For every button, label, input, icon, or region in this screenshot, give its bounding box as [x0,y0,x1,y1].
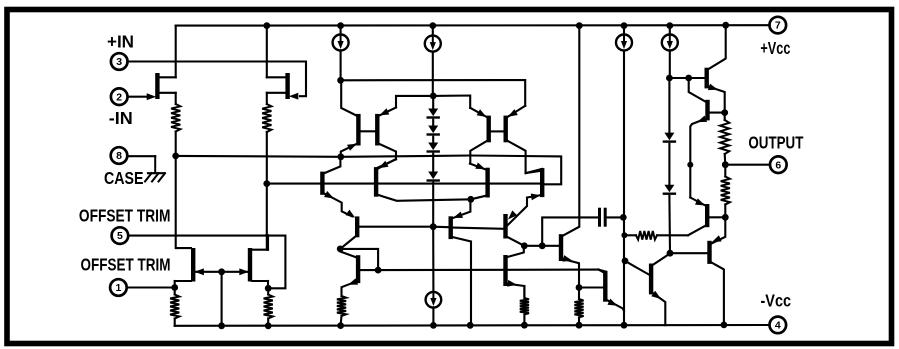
resistor R5 (Q8 emitter) [337,296,346,316]
svg-text:CASE: CASE [104,168,144,188]
node Q10 collector rail junction [467,322,474,329]
node I1 output junction [337,77,344,84]
wire I5/D5 node down to D5 [668,78,670,133]
wire Q2 drain to +Vcc rail [266,26,268,78]
wire R9 to Q19 collector [657,234,688,236]
node R7 rail junction [521,322,528,329]
transistor Q9 (NPN) [705,68,709,89]
node R5 rail junction [337,322,344,329]
pin 5 (OFFSET TRIM) [112,227,129,244]
node I5 rail junction [666,22,673,29]
pin 3 (+IN) [111,53,128,70]
node Q15a/Q15b collector junction [521,242,528,249]
wire I2 to diode stack top [432,52,434,96]
transistor Q5b (NPN) [320,172,324,195]
pin 1 (OFFSET TRIM) [110,279,127,296]
wire trim JFET gates tied [195,271,247,273]
svg-text:2: 2 [116,91,122,103]
resistor R8 (Q16 emitter) [574,299,583,318]
wire D1 to D2 [432,120,434,126]
transistor Q6b (PNP) [374,167,378,197]
node R4 rail junction [265,322,272,329]
wire stack-bottom net to Q10/Q15a bases [433,226,448,229]
pin 2 (-IN) [111,88,128,105]
current source I5 [669,26,671,35]
wire Q5/Q6 base tie [491,130,503,132]
transistor Q5 (PNP) [487,116,491,143]
diode D1 [428,109,438,117]
node Q16 emitter / Q17 base junction [576,284,583,291]
wire I4 down bias column [623,51,625,218]
wire gate tie down to -Vcc rail [221,272,223,326]
svg-text:7: 7 [775,20,781,32]
pin 7 (+Vcc) [770,17,787,34]
svg-text:OFFSET TRIM: OFFSET TRIM [81,255,171,275]
svg-text:3: 3 [116,56,122,68]
node Q9 base junction [685,75,692,82]
wire R1 bottom to node (pin8 net) [175,132,177,156]
transistor Q20 (PNP) [707,241,711,264]
wire pin1 to trim JFET Q11 source node [127,286,175,288]
wire Q8 node to Q15 base line [378,269,598,272]
transistor Q8 (NPN, diode connected) [356,255,360,283]
wire D4 to stack bottom node [432,183,434,227]
wire node to compensation cap / Q16 base [524,245,542,247]
wire node to Q9 base node [669,77,688,79]
svg-text:5: 5 [117,230,123,242]
node Q16 collector rail junction [576,22,583,29]
wire I4 column to -Vcc rail [623,217,625,325]
wire Q15 collector corner [599,270,606,272]
node Q3 emitter / Q5b collector junction [337,153,344,160]
JFET Q11 (offset trim left) [191,248,195,282]
wire I1 to Q3 collector node [340,51,342,81]
wire pin8 to chassis ground [127,155,155,157]
wire D6 down to Q18 collector node [668,196,671,253]
svg-text:OUTPUT: OUTPUT [748,133,803,153]
node cap junction [539,242,546,249]
resistor R1 [171,104,180,132]
capacitor C1 [598,209,601,225]
diode D5 [664,133,674,141]
node pin1/R3 junction [171,284,178,291]
resistor R9 [624,234,636,236]
JFET Q12 (offset trim right) [248,248,252,282]
wire pin2 to Q1 gate [128,96,146,98]
transistor Q3 (PNP) [356,114,360,146]
resistor R6 (output bleed) [720,120,729,154]
node I4 rail junction [621,22,628,29]
svg-text:OFFSET TRIM: OFFSET TRIM [79,206,170,226]
node diode stack bottom junction [430,223,437,230]
node Q7/Q8 collector junction [337,246,344,253]
node I3 rail junction [430,322,437,329]
svg-text:4: 4 [775,320,781,332]
wire -Vcc bottom rail [175,324,770,327]
JFET Q1 (inverting input) [155,73,159,99]
resistor R4 [264,295,273,319]
wire Q12 drain up to R2 net [267,235,269,249]
svg-text:1: 1 [115,282,121,294]
transistor Q16 (NPN) [559,234,563,261]
svg-text:-IN: -IN [109,108,133,128]
transistor Q6 (PNP) [504,116,508,143]
wire stack-top node to Q4 emitter leg [396,96,433,108]
wire node down to trim JFET Q11 drain [175,156,177,248]
wire long net R1/pin8 to Q14 base [176,156,562,185]
wire Q12 source down to pin5 wrap node [267,281,269,288]
current source I2 [432,26,434,36]
node Q8 base junction [375,267,382,274]
transistor Q14 (PNP) [540,168,544,197]
node D6/Q18/Q20-base junction [667,250,674,257]
node Q19 base junction [722,214,729,221]
node gate tie rail junction [218,322,225,329]
wire node to Q20 base [670,252,707,254]
node I2 rail junction [429,22,436,29]
node R1/pin8 junction [172,153,179,160]
pin 4 (-Vcc) [770,317,787,334]
wire diode stack bottom to I3 [432,227,434,292]
node I5/D5 junction [666,75,673,82]
transistor Q4 (PNP) [375,114,379,146]
current source I4 [623,26,625,35]
node diode stack top junction [430,93,437,100]
transistor Q10 (PNP) [449,216,453,239]
wire Q2 source to R2 [266,93,268,104]
wire Q4 collector to Q6b emitter [378,159,396,167]
node Q9 collector rail junction [722,22,729,29]
wire stack top to D1 [432,96,434,109]
node pin5-wrap/R4 junction [265,285,272,292]
transistor Q13 (PNP) [485,168,489,198]
wire D3 to D4 [432,154,434,172]
wire +Vcc top rail [176,24,770,26]
transistor Q9b (NPN) [705,100,709,121]
wire Q1 source to R1 [175,93,177,104]
pin 8 (CASE) [111,147,128,164]
resistor R7 (Q15b emitter) [520,298,529,315]
resistor R3 [170,295,179,319]
diode D3 [428,143,438,151]
wire stack-top node to Q5 emitter leg [433,96,470,108]
transistor Q19 (PNP) [705,204,709,227]
diode D2 [428,126,438,134]
current source I1 [340,26,342,35]
transistor Q7 (PNP) [355,216,359,237]
resistor R2 [262,104,271,132]
svg-text:-Vcc: -Vcc [761,291,792,311]
wire pin5 wrap to trim JFET Q12 source node [128,236,285,289]
transistor Q15b (NPN) [503,255,507,286]
transistor Q15a (PNP) [503,214,507,239]
node R8 rail junction [576,322,583,329]
svg-text:6: 6 [775,159,781,171]
node I1 rail junction [337,22,344,29]
wire Q11 source down to pin1 node [174,281,176,288]
wire base net R2 to Q5b/Q6b/Q13 bases [267,183,540,185]
node Q9 emitter / Q9b base junction [721,109,728,116]
node I4 column rail junction [621,322,628,329]
node Q2 drain rail junction [263,22,270,29]
node Q9b emitter / output-line junction [687,162,693,168]
wire R2 bottom to base net node [266,132,268,184]
node I4/Q18 base junction [622,258,629,265]
wire D5 to D6 [668,144,670,185]
wire output column down to Q19 emitter [689,165,691,198]
svg-text:+IN: +IN [107,31,134,51]
wire cap right plate to I4 column [605,216,623,218]
node gate tie junction [218,268,225,275]
resistor R10 (output to Q19 base) [721,177,730,205]
pin 6 (OUTPUT) [770,156,787,173]
wire Q6 collector to Q14 collector [526,169,543,173]
wire Q8 base to collector tie [340,249,378,270]
wire Q1 drain to +Vcc rail [175,26,177,78]
wire pin3 to Q2 gate [128,62,306,97]
transistor Q18 (NPN) [649,264,653,295]
wire output node to pin6 [725,164,770,166]
wire bias line I1 node to Q6 emitter leg [341,80,526,106]
JFET Q2 (non-inverting input) [285,73,289,99]
node cap/I4 junction [620,214,627,221]
svg-text:8: 8 [116,150,122,162]
wire node to Q16 base [542,245,559,247]
wire I5 to D5/T-i base node [669,51,671,79]
transistor Q17 (NPN) [603,271,607,302]
node output junction [722,161,729,168]
node R2 bottom junction [263,180,270,187]
wire node down to trim JFET Q12 drain [266,184,268,250]
wire I3 to -Vcc rail [432,308,434,326]
node Q20 collector rail junction [721,322,728,329]
node I4/R9 junction [621,232,627,238]
svg-text:+Vcc: +Vcc [760,38,790,58]
wire Q3/Q4 base tie [361,130,375,132]
chassis ground symbol [154,156,156,173]
wire D2 to D3 [432,137,434,143]
diode D4 [428,172,438,180]
node Q6b collector / Q8 collector / Q13 emitter junction [467,196,474,203]
current source I3 [426,292,442,308]
diode D6 [664,185,674,193]
